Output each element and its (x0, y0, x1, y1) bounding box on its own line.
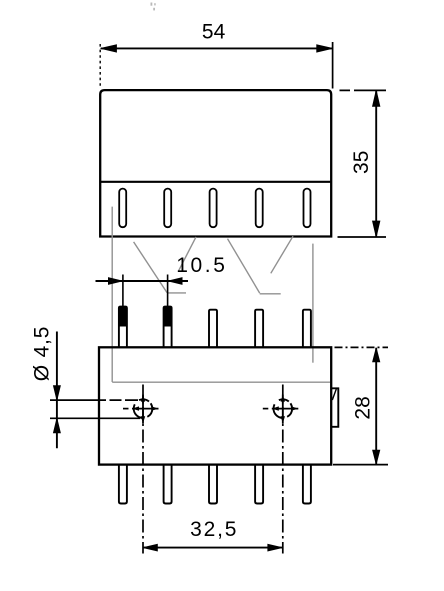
dimension 35 arrow top (373, 90, 380, 106)
slot 5 (304, 189, 311, 228)
bottom pin 5 (303, 465, 311, 504)
projection diagonal right V leg2 partial (271, 236, 293, 273)
top pin 1 (119, 307, 127, 348)
bottom pin 1 (119, 465, 127, 504)
dimension 32.5 line (143, 547, 283, 549)
top pin 2 filled tip (163, 307, 172, 327)
svg-text:Ø 4,5: Ø 4,5 (30, 326, 53, 381)
dimension 10.5 extension line pin1 (122, 275, 124, 312)
dimension 28 line (375, 348, 377, 464)
slot 2 (164, 189, 171, 228)
mounting hole left crosshair (132, 395, 159, 424)
dimension 32.5 arrow right (268, 544, 283, 551)
dimension 35 arrow bottom (373, 221, 380, 237)
dimension 54 extension line left (99, 44, 101, 88)
bottom pin 3 (209, 465, 217, 504)
projection line gray vertical right (312, 244, 314, 363)
svg-text:35: 35 (350, 151, 373, 174)
dimension 35 extension line top (340, 89, 387, 91)
top pin 3 (209, 310, 217, 348)
top pin 1 filled tip (118, 307, 127, 327)
side tab on right edge (331, 388, 338, 427)
projection right V bottom tick (260, 293, 281, 295)
svg-text:32,5: 32,5 (190, 518, 238, 541)
mounting hole right crosshair arrows (272, 395, 299, 424)
dimension 54 arrow left (101, 45, 117, 52)
slot 4 (256, 189, 263, 228)
projection gray horizontal inside lower body (112, 381, 330, 383)
projection diagonal left V leg2 partial (178, 237, 196, 272)
mounting hole right horizontal dash (263, 408, 269, 410)
diameter 4.5 tangent line top (50, 399, 138, 401)
side tab inner chamfer (332, 389, 336, 400)
dimension 28 arrow top (373, 348, 380, 362)
projection diagonal left V leg1 (134, 242, 167, 293)
mounting hole right crosshair (272, 395, 299, 424)
projection line gray vertical left (111, 207, 113, 382)
dimension 54 line (101, 47, 332, 49)
svg-text:10.5: 10.5 (176, 254, 227, 277)
diameter 4.5 arrow down (53, 386, 60, 401)
bottom pin 2 (164, 465, 172, 504)
dimension 35 line (375, 91, 377, 237)
dimension 32.5 arrow left (143, 544, 158, 551)
mounting hole left circle (134, 399, 153, 418)
slot 1 (119, 189, 126, 228)
bottom view body outline (99, 347, 331, 464)
mounting hole left crosshair arrows (132, 395, 159, 424)
projection diagonal right V leg1 (228, 239, 260, 293)
svg-text:54: 54 (202, 21, 226, 44)
dimension 10.5 extension line pin2 (167, 275, 169, 312)
mounting hole left vertical centerline (142, 385, 144, 554)
diameter 4.5 dimension line vertical (56, 332, 58, 449)
dimension 54 arrow right (317, 45, 333, 52)
dimension 54 extension line right (332, 42, 334, 89)
projection left V bottom tick (167, 292, 186, 294)
top pin 5 (303, 310, 311, 348)
dimension 10.5 arrow left outside (108, 278, 122, 285)
slot 3 (210, 189, 217, 228)
top pin 2 (164, 307, 172, 348)
diameter 4.5 tangent line bottom (50, 417, 140, 419)
top pin 4 (255, 310, 263, 348)
bottom pin 4 (255, 465, 263, 504)
diameter 4.5 arrow up (53, 418, 60, 433)
faint scan smudge top (151, 3, 156, 11)
mounting hole left horizontal dash (123, 408, 129, 410)
mounting hole right vertical centerline (282, 385, 284, 554)
dimension 35 extension line bottom (338, 236, 387, 238)
top view body outline (100, 90, 331, 236)
svg-text:28: 28 (351, 396, 374, 419)
dimension 10.5 arrow right outside (168, 278, 182, 285)
dimension 28 arrow bottom (373, 450, 380, 464)
dimension 28 extension line bottom (333, 464, 388, 466)
top view divider line (100, 181, 331, 183)
dimension 10.5 line (96, 280, 189, 282)
dimension 28 extension line top (335, 346, 389, 348)
mounting hole right circle (274, 399, 293, 418)
